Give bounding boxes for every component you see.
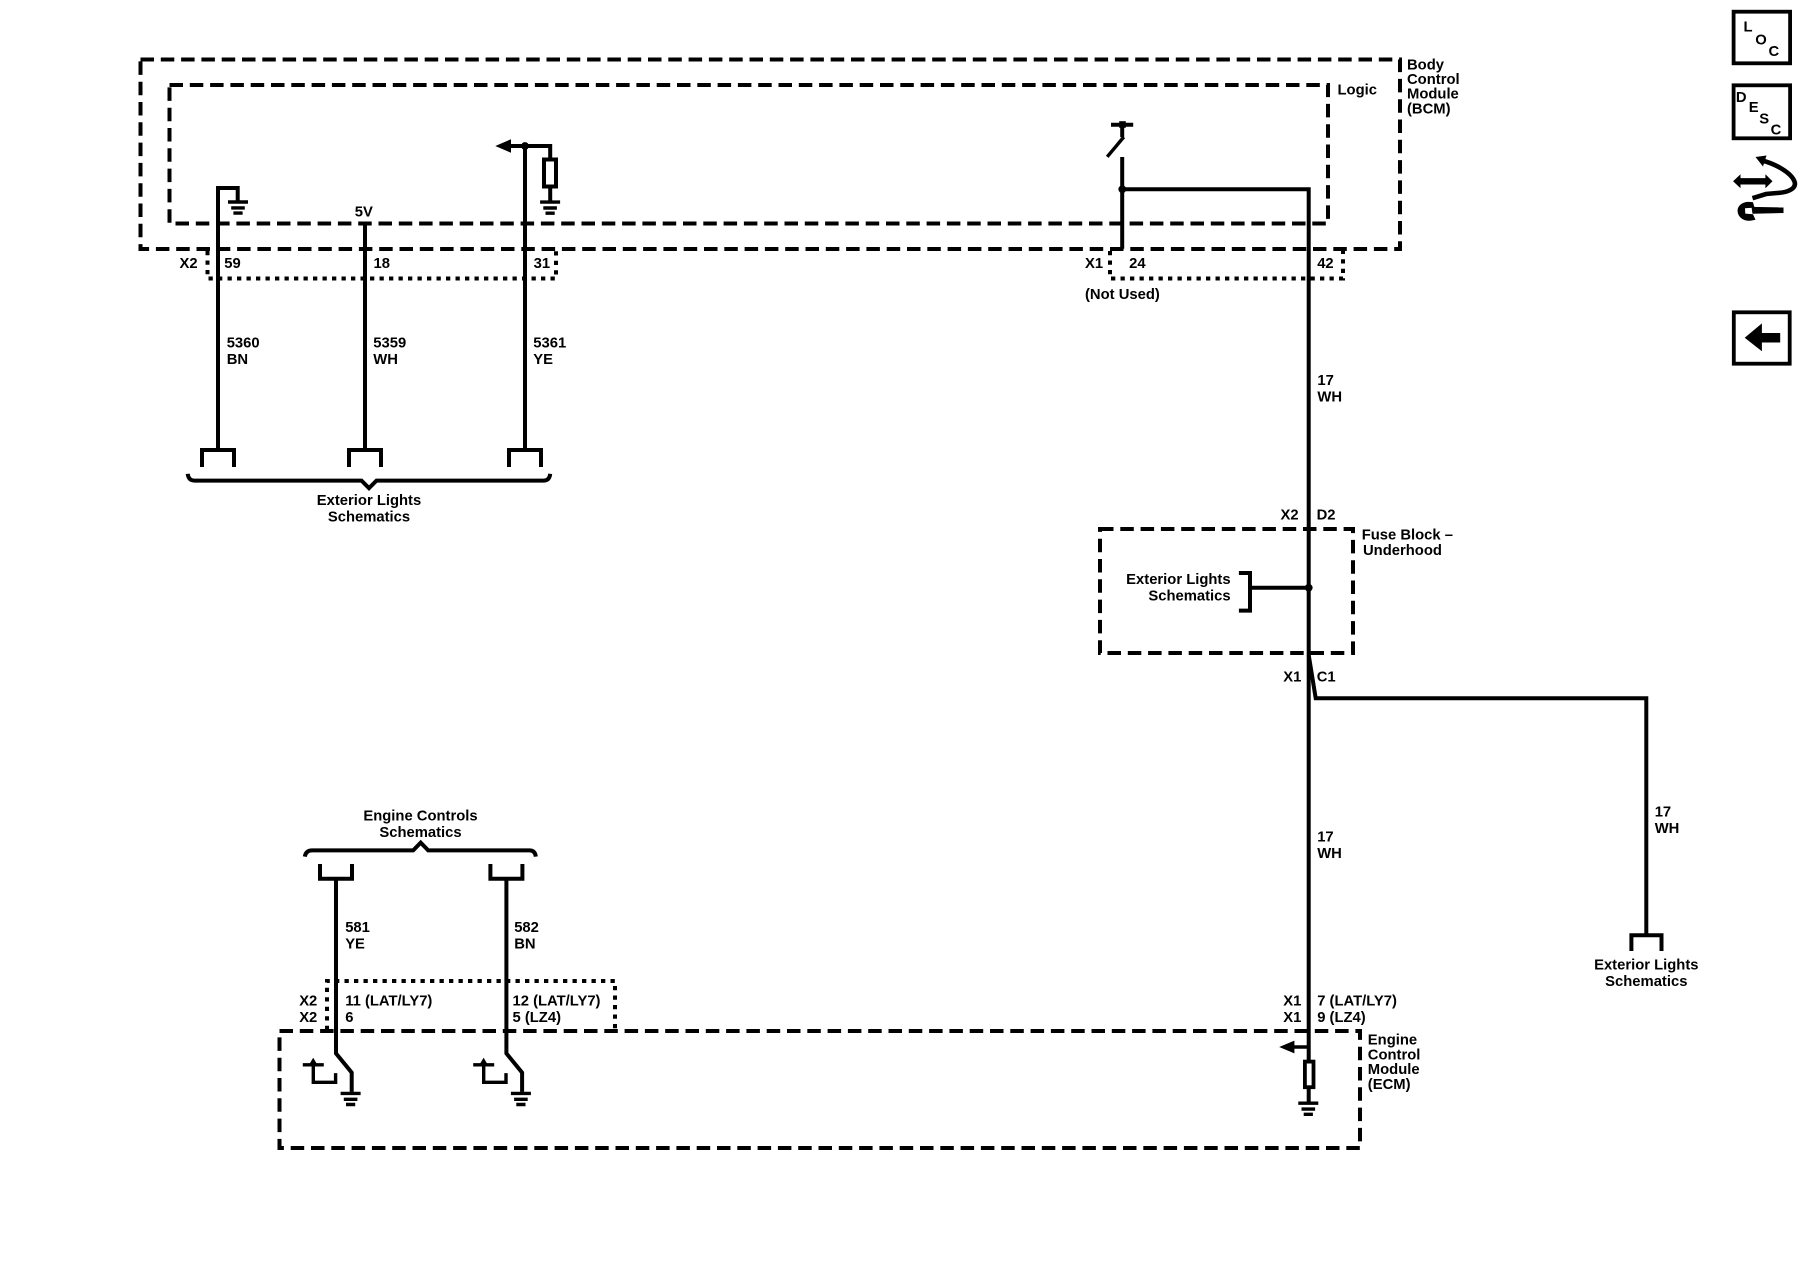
wire switch to pin 24 [1120, 157, 1124, 249]
svg-text:6: 6 [345, 1010, 353, 1026]
svg-text:WH: WH [1655, 821, 1680, 837]
resistor inside BCM [544, 160, 556, 187]
svg-text:X2: X2 [1281, 508, 1299, 524]
svg-text:5359: 5359 [373, 335, 406, 351]
svg-text:WH: WH [1317, 846, 1342, 862]
svg-text:C1: C1 [1317, 670, 1336, 686]
off-page connector bracket wire 5360 [202, 450, 234, 467]
icon LOC button [1734, 12, 1791, 64]
svg-text:42: 42 [1317, 256, 1333, 272]
svg-text:X1: X1 [1085, 256, 1103, 272]
wire circuit 5359 (5V to bracket) [363, 224, 367, 449]
connector X2 of ECM (pins 11,6,12,5) [327, 981, 615, 1030]
svg-text:(ECM): (ECM) [1368, 1077, 1411, 1093]
svg-text:17: 17 [1317, 373, 1333, 389]
svg-text:C: C [1769, 44, 1780, 60]
ground symbol in ECM (left) [341, 1093, 361, 1104]
wire resistor to ground [548, 187, 552, 201]
off-page connector bracket wire 581 [320, 864, 352, 879]
svg-text:WH: WH [1317, 390, 1342, 406]
wire arrow to main [1292, 1045, 1309, 1048]
brace Engine Controls Schematics [305, 843, 536, 857]
driver symbol in ECM (left) [303, 1058, 336, 1083]
module box Fuse Block - Underhood [1100, 529, 1353, 653]
logic box inside BCM [170, 85, 1329, 224]
svg-text:9 (LZ4): 9 (LZ4) [1317, 1010, 1366, 1026]
bracket in fuse block [1239, 573, 1250, 611]
svg-text:BN: BN [514, 936, 535, 952]
svg-text:5V: 5V [355, 204, 373, 220]
svg-text:WH: WH [373, 352, 398, 368]
junction dot on wire 5361 [521, 142, 529, 150]
wire circuit 5360 (pin 59 to bracket) [216, 186, 220, 448]
driver symbol in ECM (right) [473, 1058, 506, 1083]
svg-text:Control: Control [1368, 1047, 1421, 1063]
svg-text:S: S [1759, 112, 1769, 128]
svg-text:11 (LAT/LY7): 11 (LAT/LY7) [345, 994, 432, 1010]
resistor in ECM [1305, 1062, 1314, 1088]
ground symbol in ECM (right) [511, 1093, 531, 1104]
svg-text:E: E [1749, 100, 1759, 116]
brace Exterior Lights Schematics (top left) [188, 474, 551, 488]
icon wiring tools (double arrow, loop, wrench) [1733, 156, 1795, 221]
svg-text:Fuse Block –: Fuse Block – [1362, 527, 1453, 543]
svg-text:Body: Body [1407, 57, 1445, 73]
svg-text:17: 17 [1317, 830, 1333, 846]
svg-text:Logic: Logic [1338, 83, 1377, 99]
svg-text:Underhood: Underhood [1363, 543, 1442, 559]
wire from arrow to resistor branch [508, 146, 550, 160]
off-page connector bracket (bottom right) [1631, 935, 1661, 951]
svg-text:5361: 5361 [533, 335, 566, 351]
svg-text:BN: BN [227, 352, 248, 368]
wire circuit 5361 (junction to bracket) [523, 146, 527, 449]
ground symbol inside BCM (left) [216, 188, 248, 213]
svg-text:18: 18 [374, 256, 390, 272]
svg-text:5360: 5360 [227, 335, 260, 351]
svg-text:YE: YE [345, 936, 365, 952]
svg-text:X2: X2 [180, 256, 198, 272]
svg-text:Control: Control [1407, 72, 1460, 88]
arrow into ECM (left pointing) [1279, 1041, 1294, 1054]
svg-text:581: 581 [345, 920, 370, 936]
svg-text:YE: YE [533, 352, 553, 368]
wire bracket to main run [1250, 586, 1309, 590]
svg-text:17: 17 [1655, 805, 1671, 821]
svg-text:31: 31 [534, 256, 550, 272]
svg-text:Exterior Lights: Exterior Lights [1126, 572, 1230, 588]
module box Engine Control Module (ECM) [280, 1031, 1361, 1148]
ground symbol under resistor [540, 202, 560, 213]
module box Body Control Module (BCM) [141, 60, 1401, 250]
wire circuit 581 (bracket to ECM) [336, 879, 352, 1092]
wire 17 WH main run (switch junction to ECM resistor) [1122, 189, 1309, 1062]
wire branch to exterior lights (right) [1309, 655, 1647, 935]
svg-text:24: 24 [1129, 256, 1146, 272]
junction dot at switch wire [1118, 185, 1126, 193]
icon back arrow button [1734, 312, 1790, 363]
connector X2 of BCM (pins 59,18,31) [208, 251, 557, 279]
svg-text:Schematics: Schematics [1605, 974, 1687, 990]
svg-text:Exterior Lights: Exterior Lights [317, 493, 421, 509]
svg-text:Engine Controls: Engine Controls [363, 808, 477, 824]
ground symbol in ECM (main) [1298, 1103, 1318, 1114]
wire circuit 582 (bracket to ECM) [506, 879, 522, 1092]
svg-text:X2: X2 [299, 1010, 317, 1026]
off-page connector bracket wire 5359 [349, 450, 381, 467]
switch inside BCM [1107, 121, 1133, 157]
svg-text:59: 59 [224, 256, 240, 272]
svg-text:Schematics: Schematics [1148, 588, 1230, 604]
svg-text:Module: Module [1368, 1062, 1420, 1078]
svg-text:Schematics: Schematics [328, 509, 410, 525]
svg-text:O: O [1755, 32, 1767, 48]
svg-text:X1: X1 [1283, 670, 1301, 686]
svg-text:Schematics: Schematics [379, 825, 461, 841]
svg-text:Exterior Lights: Exterior Lights [1594, 958, 1698, 974]
connector X1 of BCM (pins 24,42) [1110, 251, 1343, 279]
icon DESC button [1734, 85, 1791, 138]
svg-text:D: D [1736, 90, 1747, 106]
svg-text:12 (LAT/LY7): 12 (LAT/LY7) [513, 994, 601, 1010]
wire resistor to ground in ECM [1307, 1087, 1311, 1101]
svg-text:5 (LZ4): 5 (LZ4) [513, 1010, 562, 1026]
svg-text:X1: X1 [1283, 994, 1301, 1010]
svg-text:582: 582 [514, 920, 539, 936]
off-page connector bracket wire 582 [490, 864, 522, 879]
svg-text:C: C [1771, 123, 1782, 139]
svg-text:(BCM): (BCM) [1407, 101, 1451, 117]
svg-text:L: L [1744, 19, 1753, 35]
junction dot in fuse block [1305, 584, 1313, 592]
arrow into logic (left pointing) [495, 139, 511, 153]
svg-text:X2: X2 [299, 994, 317, 1010]
svg-text:D2: D2 [1317, 508, 1336, 524]
svg-text:Module: Module [1407, 87, 1459, 103]
off-page connector bracket wire 5361 [509, 450, 541, 467]
svg-text:(Not Used): (Not Used) [1085, 287, 1160, 303]
svg-text:Engine: Engine [1368, 1033, 1417, 1049]
svg-text:X1: X1 [1283, 1010, 1301, 1026]
svg-text:7 (LAT/LY7): 7 (LAT/LY7) [1317, 994, 1397, 1010]
